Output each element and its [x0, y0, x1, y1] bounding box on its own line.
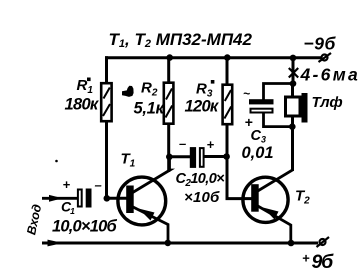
- input arrowhead: [49, 195, 63, 202]
- headphone Тлф symbol: [286, 93, 308, 123]
- capacitor C2 right plate (hollow): [200, 148, 204, 167]
- wire: top supply bus: [105, 56, 322, 59]
- svg-text:С1: С1: [61, 199, 75, 217]
- svg-text:+: +: [63, 177, 71, 192]
- svg-text:С3: С3: [251, 128, 267, 145]
- svg-text:Вход: Вход: [24, 203, 44, 236]
- bottom input arrowhead: [48, 240, 64, 247]
- resistor R3: [223, 85, 233, 125]
- node: junction of R2 top at bus: [166, 54, 173, 61]
- svg-text:−9б: −9б: [304, 34, 337, 54]
- node: junction of R3 top at bus: [224, 54, 231, 61]
- node: junction C3 bottom / headphone bottom: [289, 123, 296, 130]
- wire: headphone vertical: [291, 84, 294, 172]
- current break mark x: [289, 68, 298, 78]
- wire: bottom bus: [42, 242, 318, 245]
- wire: C2 right wire: [205, 155, 229, 158]
- T2 emitter line: [256, 205, 291, 243]
- T2 collector line: [256, 158, 293, 192]
- svg-text:R2: R2: [141, 80, 158, 99]
- wire: R2 top lead: [167, 58, 170, 82]
- wire: C3 bottom branch: [264, 113, 292, 127]
- node: junction R3 lead / C2 right: [223, 153, 230, 160]
- svg-text:С210,0×: С210,0×: [176, 171, 226, 189]
- speck artifact: [55, 160, 58, 163]
- capacitor C2 left plate (solid): [190, 147, 196, 168]
- wire: R1 bottom lead down to T1 base node: [105, 122, 108, 199]
- svg-text:×10б: ×10б: [184, 189, 220, 206]
- capacitor C3 top plate (solid): [249, 99, 274, 104]
- wire: C2 left wire: [170, 155, 191, 158]
- svg-text:Т1: Т1: [121, 151, 136, 170]
- terminal +9в: [317, 237, 330, 247]
- svg-text:R1: R1: [77, 77, 94, 96]
- svg-text:0,01: 0,01: [242, 144, 274, 162]
- svg-text:120к: 120к: [185, 98, 220, 116]
- node: T1 emitter at bottom bus: [165, 240, 172, 247]
- svg-text:10,0×10б: 10,0×10б: [52, 218, 118, 236]
- transistor T1 circle: [118, 177, 166, 225]
- wire: R2 bottom lead down to T1 collector node: [167, 123, 170, 172]
- svg-text:9б: 9б: [312, 251, 335, 273]
- T2 emitter arrowhead (pnp, points toward base): [263, 208, 279, 220]
- node: T1 base junction: [104, 195, 111, 202]
- ink blot artifact near R2: [122, 86, 134, 97]
- resistor R2: [164, 83, 174, 124]
- wire: drop from bus with current break: [292, 58, 295, 84]
- wire: T1 base wire: [105, 197, 127, 200]
- resistor R1: [101, 83, 111, 121]
- node: T2 emitter at bottom bus: [288, 240, 295, 247]
- wire: R3 bottom lead down to T2 base: [226, 124, 229, 199]
- capacitor C3 bottom plate (hollow): [251, 109, 273, 113]
- svg-text:Т1, Т2 МП32-МП42: Т1, Т2 МП32-МП42: [109, 30, 253, 50]
- T2 base bar: [251, 184, 259, 212]
- svg-text:Тлф: Тлф: [312, 94, 343, 111]
- T1 emitter line: [131, 206, 168, 243]
- svg-text:4-6ма: 4-6ма: [300, 65, 360, 85]
- capacitor C1 right plate (solid): [86, 189, 92, 208]
- svg-text:–: –: [95, 178, 102, 193]
- node: junction C3 / headphone top: [290, 80, 297, 87]
- node: junction R2 / C2 left / T1 collector: [166, 154, 173, 161]
- svg-text:5,1к: 5,1к: [134, 100, 166, 118]
- svg-text:+: +: [302, 251, 310, 266]
- node: junction headphone branch at bus: [290, 55, 297, 62]
- wire: R1 top lead / bus left corner: [105, 56, 108, 82]
- T1 base bar: [126, 186, 134, 214]
- svg-text:–: –: [179, 136, 186, 151]
- wire: R3 top lead: [226, 58, 229, 84]
- wire: T2 base wire: [226, 197, 252, 200]
- svg-text:Т2: Т2: [295, 188, 310, 207]
- capacitor C1 left plate (hollow): [78, 190, 82, 207]
- T1 emitter arrowhead (pnp, points toward base): [139, 209, 155, 221]
- T1 collector line: [131, 158, 170, 194]
- svg-text:180к: 180к: [65, 96, 100, 114]
- transistor T2 circle: [243, 177, 288, 222]
- terminal -9в: [319, 53, 332, 62]
- svg-text:~: ~: [243, 87, 250, 101]
- wire: C3 top branch: [264, 84, 294, 100]
- svg-text:+: +: [207, 137, 215, 152]
- wire: input top lead: [42, 197, 78, 200]
